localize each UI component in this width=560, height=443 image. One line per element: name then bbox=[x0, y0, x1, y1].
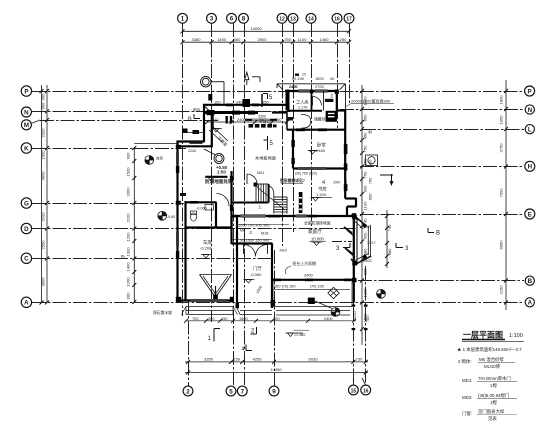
column right wall a bbox=[344, 144, 348, 154]
axis bubble 5 bottom bbox=[226, 386, 236, 396]
svg-text:730: 730 bbox=[356, 357, 364, 362]
svg-text:(36)5,00.84樘门: (36)5,00.84樘门 bbox=[478, 392, 509, 399]
svg-text:700: 700 bbox=[273, 316, 280, 321]
axis bubble 17 top bbox=[344, 13, 354, 23]
svg-text:H: H bbox=[528, 164, 533, 171]
section mark B upper left bbox=[194, 114, 200, 119]
svg-text:1500: 1500 bbox=[315, 76, 324, 81]
svg-text:16: 16 bbox=[363, 388, 369, 394]
column B right junction bbox=[352, 278, 357, 283]
svg-text:250: 250 bbox=[340, 37, 348, 42]
svg-text:B: B bbox=[436, 231, 440, 237]
window bedroom y168 bbox=[298, 166, 327, 168]
porch outer dim line bbox=[186, 320, 356, 322]
svg-text:4: 4 bbox=[322, 180, 325, 186]
axis bubble 1 top bbox=[178, 13, 188, 23]
bubble leader 15 bbox=[352, 378, 354, 385]
svg-text:12: 12 bbox=[279, 17, 285, 23]
dim ticks bottom bbox=[186, 360, 368, 375]
section mark 2 bottom bbox=[251, 327, 257, 334]
svg-text:1500: 1500 bbox=[126, 167, 131, 177]
axis bubble 3 top bbox=[207, 13, 217, 23]
svg-text:900: 900 bbox=[344, 180, 348, 186]
svg-text:9: 9 bbox=[272, 388, 276, 395]
top dim line 2 bbox=[183, 41, 350, 43]
wall main left upper vertical bbox=[203, 104, 205, 142]
svg-text:2100: 2100 bbox=[40, 212, 45, 222]
svg-text:A: A bbox=[528, 300, 533, 307]
svg-text:1800: 1800 bbox=[499, 95, 504, 105]
svg-text:900: 900 bbox=[363, 232, 368, 240]
window wing top 2 bbox=[315, 89, 328, 91]
svg-text:7500: 7500 bbox=[499, 188, 504, 198]
garage V door inner right bbox=[215, 276, 228, 294]
dim ticks top bbox=[181, 29, 352, 44]
column y104 wall a bbox=[226, 104, 233, 107]
bottom dim line 2 bbox=[185, 372, 368, 374]
svg-text:3600: 3600 bbox=[40, 277, 45, 287]
sill mark B wall c bbox=[344, 279, 351, 282]
column right wall b bbox=[344, 164, 348, 171]
svg-text:N: N bbox=[528, 107, 533, 114]
svg-text:1.200: 1.200 bbox=[316, 192, 327, 197]
pergola line outside left wall bbox=[183, 132, 204, 134]
svg-text:4: 4 bbox=[242, 347, 245, 353]
canopy top line bbox=[277, 83, 346, 85]
svg-text:M5 混合砂浆: M5 混合砂浆 bbox=[479, 356, 504, 363]
svg-text:M01: M01 bbox=[257, 171, 264, 175]
svg-text:2000X1200窗台高900: 2000X1200窗台高900 bbox=[351, 98, 391, 104]
svg-text:B: B bbox=[528, 278, 533, 285]
garage V door chord bbox=[200, 274, 232, 276]
wing interior wall x311 bbox=[311, 91, 313, 111]
svg-text:C: C bbox=[24, 256, 29, 263]
svg-text:8: 8 bbox=[242, 16, 246, 23]
right dim line mid bbox=[386, 210, 388, 268]
shoe cabinet steps bbox=[180, 117, 293, 196]
level mark outdoor bbox=[286, 333, 304, 337]
wall wing to main step bbox=[337, 109, 346, 111]
level mark bedroom bbox=[308, 151, 319, 155]
level mark living bbox=[205, 177, 217, 181]
column bedroom wall bbox=[291, 140, 294, 147]
svg-text:3750: 3750 bbox=[499, 143, 504, 153]
double entry door leaves bbox=[243, 245, 245, 255]
axis bubble P right bbox=[525, 86, 535, 96]
wall wing bottom bbox=[287, 129, 345, 131]
wall interior y112 bbox=[204, 111, 258, 114]
AC unit box right of bedroom bbox=[366, 155, 378, 166]
svg-text:16: 16 bbox=[334, 17, 340, 23]
window sill mark left room bbox=[190, 141, 203, 144]
svg-text:140: 140 bbox=[212, 117, 219, 122]
wall interior y146 garage bbox=[178, 145, 213, 147]
garage V door left bbox=[200, 275, 216, 298]
column wing left bbox=[286, 90, 290, 111]
left dim line inner bbox=[46, 85, 48, 303]
grid line N right segment bbox=[340, 109, 524, 111]
wall right lower vertical bbox=[353, 215, 355, 303]
grid line 6/5 vertical bbox=[233, 23, 235, 385]
drive edge line bbox=[134, 143, 177, 145]
bay corner tick b bbox=[345, 248, 354, 255]
svg-text:3: 3 bbox=[210, 16, 214, 23]
axis bubble 15 bottom bbox=[349, 385, 359, 395]
door arc M01 leaf bbox=[246, 174, 248, 184]
svg-text:MD1:: MD1: bbox=[462, 378, 473, 383]
svg-text:一层平面图: 一层平面图 bbox=[463, 331, 503, 340]
svg-text:950: 950 bbox=[363, 114, 368, 122]
grid line K horizontal bbox=[32, 148, 186, 150]
interior axis bubble mid-left bbox=[204, 149, 224, 164]
svg-text:14000: 14000 bbox=[250, 26, 262, 31]
dim ticks left strings bbox=[40, 89, 137, 305]
axis bubble K left bbox=[21, 143, 31, 153]
canopy left diagonal bbox=[277, 84, 283, 90]
svg-text:740: 740 bbox=[387, 224, 392, 232]
wall top-left horizontal bbox=[203, 104, 288, 106]
svg-text:1500: 1500 bbox=[239, 316, 248, 321]
column x231 mid b bbox=[230, 205, 233, 211]
svg-text:750: 750 bbox=[363, 145, 368, 153]
svg-text:2400: 2400 bbox=[324, 316, 333, 321]
svg-text:全瓷防滑砖地面: 全瓷防滑砖地面 bbox=[304, 221, 331, 226]
terrace diamond bbox=[328, 287, 339, 298]
canopy right vertical bbox=[345, 84, 347, 110]
level mark garage bbox=[201, 255, 212, 259]
dim ticks right strings bbox=[360, 89, 508, 331]
svg-text:见表: 见表 bbox=[488, 415, 497, 422]
grid line 15 vertical bottom bbox=[353, 266, 355, 386]
svg-text:门窗:: 门窗: bbox=[462, 410, 472, 417]
column y112 b bbox=[232, 111, 240, 115]
right dim line outer bbox=[505, 80, 507, 310]
garage door center post bbox=[215, 286, 217, 298]
stairs bottom wall y202.5 bbox=[232, 202, 269, 204]
window family y216 a bbox=[241, 214, 266, 216]
wall interior x237 hall left bbox=[236, 217, 238, 308]
bubble leader M diagonal bbox=[31, 120, 40, 124]
sill mark B wall a bbox=[273, 279, 281, 282]
svg-text:750: 750 bbox=[284, 37, 292, 42]
column x272 bottom bbox=[271, 300, 276, 307]
stairs treads lower flight bbox=[274, 200, 287, 213]
svg-text:900: 900 bbox=[363, 185, 368, 193]
bay tick top join bbox=[352, 214, 358, 220]
svg-text:阳台上方雨棚: 阳台上方雨棚 bbox=[293, 261, 316, 266]
svg-text:储藏间: 储藏间 bbox=[314, 117, 326, 122]
window bottom-left wall bbox=[191, 298, 228, 300]
svg-text:MD2:: MD2: bbox=[462, 395, 473, 400]
svg-text:650: 650 bbox=[368, 193, 373, 201]
svg-text:N: N bbox=[24, 109, 29, 116]
column bedroom wall b bbox=[291, 158, 294, 164]
svg-text:★ 1 本层建筑面积148.60m²—3.7: ★ 1 本层建筑面积148.60m²—3.7 bbox=[457, 346, 522, 353]
wall axis3 x211.8 bbox=[211, 113, 213, 148]
right dim line inner bbox=[361, 85, 363, 345]
grid line G horizontal bbox=[32, 203, 184, 205]
ramp diagonal 2 bbox=[209, 130, 222, 142]
corner column x242-250 bbox=[243, 99, 251, 107]
sill wing bottom b bbox=[318, 128, 327, 131]
svg-text:2100: 2100 bbox=[126, 213, 131, 223]
wall bay bump top bbox=[345, 197, 356, 199]
bottom dim line 1 bbox=[185, 361, 368, 363]
column wing mid top bbox=[310, 90, 314, 94]
axis bubble N right bbox=[525, 105, 534, 114]
survey point circle-cross 1 bbox=[145, 156, 154, 165]
axis bubble L right bbox=[525, 125, 534, 134]
axis bubble B right bbox=[525, 276, 534, 285]
column x237 bottom bbox=[236, 303, 240, 309]
wall bottom-left bbox=[177, 299, 233, 301]
left dim line outer bbox=[41, 85, 43, 303]
grid line D horizontal bbox=[32, 228, 356, 230]
svg-text:B: B bbox=[188, 117, 192, 123]
svg-text:900: 900 bbox=[126, 292, 131, 300]
section mark 5 (dining) bbox=[264, 136, 268, 150]
column x231 bottom bbox=[230, 297, 234, 303]
axis bubble C left bbox=[21, 253, 31, 263]
stairs treads upper flight bbox=[259, 185, 267, 203]
svg-text:1517: 1517 bbox=[367, 240, 376, 245]
wall wing right bbox=[336, 90, 338, 111]
sill mark left wall b bbox=[176, 251, 179, 258]
left inner dim line bbox=[133, 147, 135, 302]
svg-text:2400: 2400 bbox=[304, 273, 313, 278]
svg-text:1200: 1200 bbox=[126, 232, 131, 242]
svg-text:7: 7 bbox=[241, 388, 245, 395]
svg-text:750: 750 bbox=[275, 117, 282, 122]
bay dim texts bbox=[363, 224, 376, 263]
ramp diagonal 1 bbox=[213, 127, 228, 141]
svg-text:14: 14 bbox=[308, 17, 314, 23]
svg-text:900: 900 bbox=[363, 268, 368, 276]
axis bubble 8 top bbox=[239, 13, 249, 23]
section mark B right bbox=[380, 174, 394, 186]
svg-text:4600: 4600 bbox=[40, 171, 45, 181]
svg-text:木地板地面: 木地板地面 bbox=[255, 155, 276, 162]
svg-text:卵石散水坡: 卵石散水坡 bbox=[153, 310, 172, 315]
wing bath divider bbox=[323, 91, 325, 111]
svg-text:2500: 2500 bbox=[257, 37, 267, 42]
wall interior middle vertical x231 bbox=[230, 171, 232, 244]
section mark 3-3 bbox=[343, 243, 403, 248]
grid line M horizontal bbox=[40, 120, 218, 122]
svg-text:P: P bbox=[528, 88, 532, 95]
ramp level triangle bbox=[211, 129, 222, 133]
wall wing left vertical bbox=[286, 90, 288, 106]
sill mark E wall c bbox=[308, 215, 317, 218]
svg-text:900: 900 bbox=[259, 117, 266, 122]
axis bubble E right bbox=[525, 209, 535, 219]
svg-text:1樘: 1樘 bbox=[490, 399, 497, 406]
section 5 line upper bbox=[261, 94, 263, 107]
svg-text:900: 900 bbox=[40, 102, 45, 110]
svg-text:300: 300 bbox=[208, 316, 215, 321]
grid line L horizontal bbox=[362, 129, 524, 131]
grid line 14 vertical bbox=[311, 23, 313, 230]
bay inner diag bottom bbox=[355, 254, 369, 261]
corner brace top-left bbox=[204, 105, 210, 111]
double entry door arcs bbox=[244, 245, 268, 257]
door arc M01 dining bbox=[247, 174, 257, 184]
svg-text:3300: 3300 bbox=[126, 187, 131, 197]
svg-text:50 240: 50 240 bbox=[292, 76, 305, 81]
svg-text:吧台: 吧台 bbox=[193, 108, 201, 113]
svg-text:-0.480: -0.480 bbox=[294, 332, 306, 337]
grid line 12 vertical bbox=[282, 23, 284, 246]
wall B-line bottom right bbox=[272, 279, 355, 281]
column stairs bbox=[254, 183, 258, 187]
bay corner tick a bbox=[344, 227, 352, 233]
svg-text:2700: 2700 bbox=[315, 84, 324, 89]
top dim line 1 bbox=[183, 30, 350, 32]
flue slit2 bbox=[328, 116, 335, 117]
svg-text:-0.208: -0.208 bbox=[200, 246, 212, 251]
svg-text:6030: 6030 bbox=[308, 357, 318, 362]
svg-text:15: 15 bbox=[351, 388, 357, 394]
svg-text:M: M bbox=[24, 122, 29, 129]
svg-text:2400: 2400 bbox=[363, 258, 372, 263]
wall garage/left vertical bbox=[176, 141, 178, 302]
axis bubble N left bbox=[21, 107, 31, 117]
marks outside left wall y129-135 bbox=[183, 129, 188, 134]
column y112 big bbox=[207, 110, 215, 115]
bottom dim texts bbox=[204, 357, 363, 372]
svg-text:M10: M10 bbox=[280, 249, 287, 253]
svg-text:家庭厅: 家庭厅 bbox=[308, 228, 322, 235]
svg-text:2400: 2400 bbox=[236, 100, 245, 105]
interior dim line below y112 wall bbox=[207, 121, 287, 123]
axis bubble 9 bottom bbox=[269, 386, 279, 396]
left dim rotated texts bbox=[40, 93, 130, 300]
axis bubble P left bbox=[21, 86, 31, 96]
svg-text:1500: 1500 bbox=[40, 150, 45, 160]
porch left trapezoid diagonals bbox=[182, 307, 187, 315]
garage V door right bbox=[216, 275, 232, 298]
wall bay bump right bbox=[355, 198, 357, 207]
canopy left vertical bbox=[276, 84, 278, 88]
garage door apex blob bbox=[213, 295, 218, 300]
svg-text:1100: 1100 bbox=[363, 201, 368, 210]
sill mark B wall b bbox=[305, 279, 313, 282]
svg-text:70×20mm厚木门: 70×20mm厚木门 bbox=[478, 375, 511, 382]
svg-text:弧形楼梯详见7: 弧形楼梯详见7 bbox=[280, 178, 305, 183]
grid line H horizontal bbox=[360, 166, 524, 168]
wall right main vertical bbox=[344, 110, 346, 199]
column y104 wall b bbox=[252, 104, 259, 107]
grid line P horizontal bbox=[32, 91, 524, 93]
windows (white gap + 3 dark lines) bbox=[178, 91, 328, 301]
bookshelf bar study bbox=[299, 192, 303, 213]
sink left bath bbox=[205, 205, 214, 211]
flue slit bbox=[328, 113, 335, 114]
svg-text:2240: 2240 bbox=[188, 149, 196, 153]
sill mark E wall b bbox=[268, 215, 281, 218]
svg-text:750: 750 bbox=[363, 171, 368, 179]
column y112 c bbox=[248, 111, 255, 115]
svg-text:-0.060: -0.060 bbox=[250, 272, 262, 277]
svg-text:±0.000: ±0.000 bbox=[311, 237, 324, 242]
dim tick above wall bbox=[208, 94, 212, 101]
svg-text:台阶: 台阶 bbox=[156, 156, 164, 161]
canopy outline above wing bbox=[277, 84, 346, 110]
level mark hall bbox=[244, 280, 255, 284]
bay tick bottom join bbox=[351, 259, 357, 265]
sill mark E wall a bbox=[232, 215, 238, 218]
svg-text:150 |70| 150: 150 |70| 150 bbox=[274, 284, 296, 289]
wall interior y202 bath top bbox=[186, 201, 217, 203]
dimension lines bbox=[42, 31, 507, 372]
bay black corner blobs bbox=[352, 215, 367, 266]
svg-text:K: K bbox=[24, 145, 29, 152]
svg-text:2997: 2997 bbox=[333, 181, 341, 185]
axis bubble 12 top bbox=[277, 13, 287, 23]
grid line 16 vertical bbox=[337, 23, 339, 128]
section mark 5 upper end bbox=[263, 94, 268, 100]
svg-text:17: 17 bbox=[346, 17, 352, 23]
sink wing bath black bbox=[325, 99, 334, 102]
right dim rotated texts bbox=[363, 95, 504, 323]
axis bubble 16 top bbox=[332, 13, 342, 23]
wall main left lower vertical bbox=[184, 201, 186, 300]
bubble leader 10 bbox=[362, 378, 366, 385]
svg-text:1:100: 1:100 bbox=[509, 333, 523, 339]
svg-text:1400: 1400 bbox=[126, 262, 131, 272]
svg-text:500: 500 bbox=[234, 37, 242, 42]
svg-text:1300: 1300 bbox=[126, 247, 131, 257]
axis bubble 6 top bbox=[227, 13, 237, 23]
svg-text:1200: 1200 bbox=[363, 288, 368, 298]
grid line 10 vertical bottom bbox=[365, 266, 367, 386]
svg-text:-0.80: -0.80 bbox=[167, 215, 175, 219]
svg-text:150: 150 bbox=[233, 357, 241, 362]
svg-text:1.160: 1.160 bbox=[315, 148, 326, 153]
axis bubble G left bbox=[21, 198, 31, 208]
bay corner tick d bbox=[348, 251, 355, 257]
title underline bbox=[462, 339, 505, 341]
svg-text:6650: 6650 bbox=[499, 240, 504, 250]
svg-text:见门窗表大样: 见门窗表大样 bbox=[478, 408, 505, 415]
wall E-line horizontal bbox=[231, 215, 354, 217]
svg-text:1: 1 bbox=[181, 16, 185, 23]
svg-text:上: 上 bbox=[258, 204, 262, 209]
svg-text:50 1500 150 900: 50 1500 150 900 bbox=[240, 238, 270, 243]
north/section mark above plan bbox=[245, 72, 260, 85]
stairs handrail curve bbox=[269, 186, 274, 197]
column right wall c bbox=[344, 184, 348, 191]
bay mullion bbox=[356, 218, 358, 263]
svg-text:防潮地面处理: 防潮地面处理 bbox=[205, 178, 233, 185]
door arc wing servant bbox=[313, 97, 322, 106]
svg-text:4250: 4250 bbox=[252, 357, 262, 362]
wall interior y168 bedroom bbox=[293, 167, 345, 169]
svg-text:1450: 1450 bbox=[217, 37, 227, 42]
wall interior y112 right part bbox=[272, 111, 288, 113]
wall bay bump bottom bbox=[347, 205, 357, 207]
flue shaft black bbox=[326, 111, 338, 122]
door arc wing servant leaf bbox=[312, 97, 314, 106]
stairs wall right of upper flight bbox=[268, 184, 270, 203]
svg-text:14450: 14450 bbox=[270, 367, 282, 372]
grid line E horizontal bbox=[360, 214, 524, 216]
ramp vertical bbox=[213, 114, 215, 128]
bay right vertical bbox=[370, 225, 372, 256]
counter black marks row bbox=[249, 124, 277, 128]
interior axis bubble 16 top-left bbox=[201, 77, 225, 105]
marks on axis 15/16 below A bbox=[352, 305, 368, 331]
